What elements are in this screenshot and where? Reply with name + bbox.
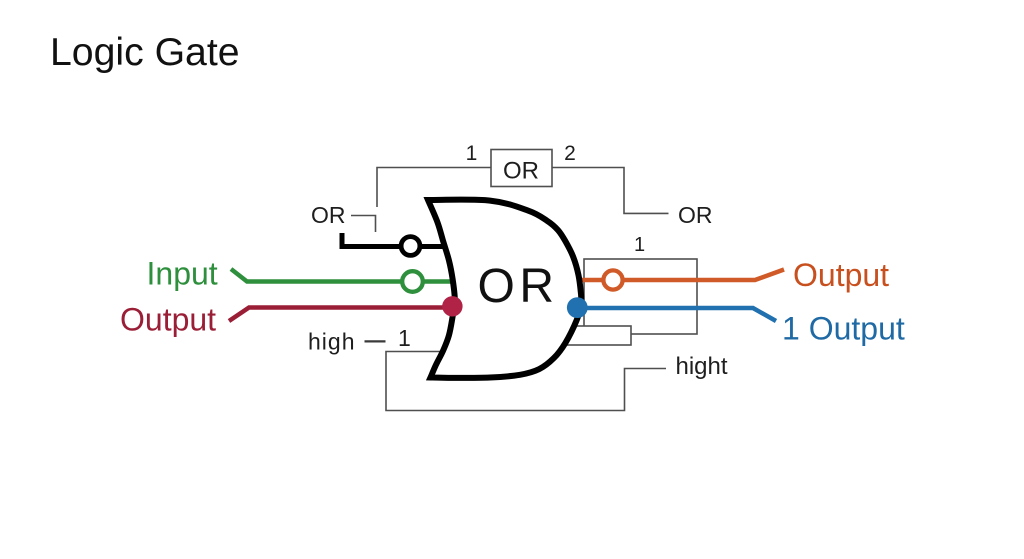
svg-text:OR: OR bbox=[311, 202, 346, 228]
svg-text:OR: OR bbox=[503, 158, 539, 185]
svg-text:hight: hight bbox=[676, 353, 728, 380]
svg-text:1: 1 bbox=[466, 142, 478, 165]
bubble: green input circle bbox=[402, 271, 423, 292]
svg-text:Output: Output bbox=[793, 257, 889, 293]
wire: black inverted input bbox=[342, 233, 448, 247]
svg-text:OR: OR bbox=[678, 202, 713, 228]
bubble: black inverter circle bbox=[401, 237, 420, 256]
wire: bottom feedback loop to hight label bbox=[386, 352, 666, 411]
svg-text:Output: Output bbox=[120, 302, 216, 338]
node: blue junction dot bbox=[567, 297, 588, 318]
OR gate U1 body bbox=[428, 200, 581, 378]
svg-text:2: 2 bbox=[564, 142, 576, 165]
wire: right feedback rectangle (output loop) bbox=[584, 259, 697, 334]
node: red junction dot bbox=[442, 296, 462, 316]
svg-text:OR: OR bbox=[478, 260, 559, 313]
OR box (small rectangle at top) bbox=[491, 150, 552, 187]
wire: OR box output to right OR label bbox=[552, 168, 669, 214]
label: dash after high bbox=[365, 340, 386, 342]
bubble: orange output circle bbox=[603, 270, 622, 289]
svg-text:high: high bbox=[308, 329, 355, 355]
wire: dark red output (left) bbox=[229, 308, 456, 322]
svg-text:1: 1 bbox=[634, 234, 645, 256]
wire: blue 1-output bbox=[578, 308, 776, 321]
wire: small white junction box lower right of gate bbox=[567, 326, 631, 345]
wire: green input bbox=[231, 269, 455, 282]
svg-text:Logic Gate: Logic Gate bbox=[50, 31, 240, 74]
wire: top-left feedback (node 1 to OR box) bbox=[377, 168, 491, 208]
wire: left OR label lead (dash and down stub) bbox=[351, 216, 376, 233]
wire: orange output bbox=[577, 270, 784, 281]
svg-text:1 Output: 1 Output bbox=[782, 311, 905, 347]
svg-text:Input: Input bbox=[147, 256, 218, 292]
svg-text:1: 1 bbox=[398, 325, 411, 351]
